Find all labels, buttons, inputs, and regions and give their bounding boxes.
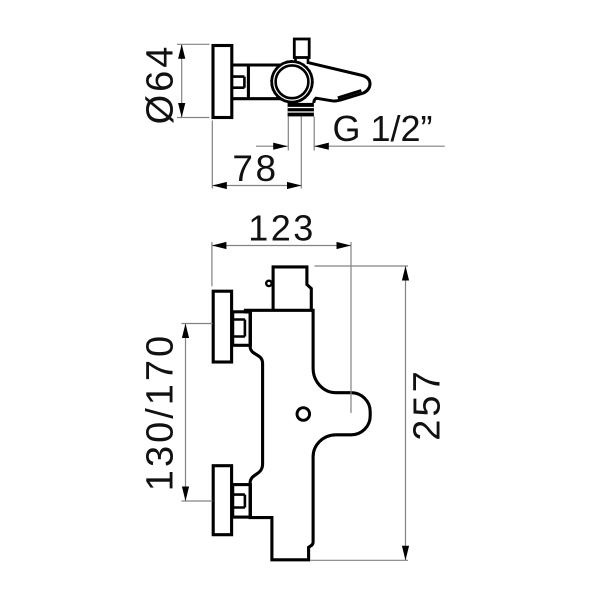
arrow 130/170 top	[182, 324, 189, 339]
union nut (side view)	[247, 65, 250, 99]
svg-text:Ø64: Ø64	[140, 44, 182, 125]
diverter knob (side view)	[294, 39, 309, 58]
arrow 257 top	[402, 266, 409, 281]
dim 78 line	[212, 185, 301, 187]
arrow 78 left	[212, 182, 227, 189]
arrow 130/170 bottom	[182, 487, 189, 502]
dim 78 extension lines	[212, 117, 301, 189]
wall flange (side view)	[213, 46, 232, 118]
dim 257 line	[405, 266, 407, 560]
spout aerator lip line	[338, 91, 362, 98]
dim 130/170 line	[185, 324, 187, 502]
arrow 123 left	[212, 242, 227, 249]
upper union nut	[233, 312, 251, 346]
valve body cylinder (side view)	[232, 65, 292, 99]
arrow Ø64 top	[178, 44, 185, 59]
spout (side view)	[309, 63, 370, 103]
svg-text:78: 78	[232, 148, 278, 189]
dim Ø64 line	[181, 44, 183, 117]
upper wall flange	[213, 291, 231, 362]
dim 257 extension lines	[310, 266, 408, 560]
thermostat cap outer circle (knurled)	[272, 62, 313, 103]
thermostat cap inner circle	[276, 65, 309, 98]
temperature control circle	[297, 408, 310, 421]
dim 130/170 extension lines	[182, 324, 213, 502]
dim G 1/2 extension lines	[288, 117, 314, 151]
lower wall flange	[213, 466, 231, 535]
screw circle on top outlet	[266, 281, 271, 286]
arrow G1/2 left (pointing right)	[273, 143, 288, 150]
svg-text:G 1/2”: G 1/2”	[333, 108, 433, 149]
dim 123 extension lines	[212, 242, 351, 413]
svg-text:123: 123	[248, 208, 316, 249]
arrow 257 bottom	[402, 546, 409, 561]
knurl texture	[271, 61, 313, 103]
arrow G1/2 right (pointing left)	[314, 143, 329, 150]
lower union nut	[233, 485, 251, 517]
arrow 123 right	[337, 242, 352, 249]
arrow Ø64 bottom	[178, 103, 185, 118]
dim Ø64 extension lines	[177, 44, 210, 117]
knob neck	[296, 58, 309, 64]
outlet thread block (G 1/2)	[288, 103, 314, 117]
svg-text:257: 257	[407, 368, 449, 440]
main body outline	[245, 310, 370, 560]
svg-text:130/170: 130/170	[140, 333, 182, 491]
arrow 78 right	[287, 182, 302, 189]
dim 123 line	[212, 245, 351, 247]
top outlet connector	[273, 267, 311, 310]
dim G 1/2 lines	[256, 145, 445, 147]
